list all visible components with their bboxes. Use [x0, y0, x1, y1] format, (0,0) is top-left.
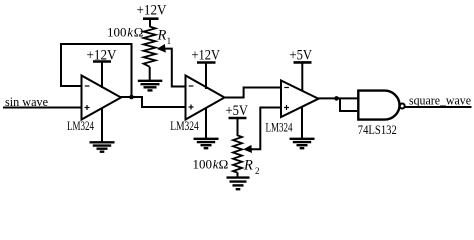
pin + of U1	[85, 105, 90, 110]
node junction dot U1 output	[129, 95, 134, 100]
wire U1 ground lead	[101, 108, 103, 142]
op-amp U1 (LM324 stage 1)	[82, 76, 122, 120]
svg-text:100: 100	[193, 157, 213, 172]
wiper arrow of R2	[243, 145, 252, 153]
resistor R1 potentiometer 100k	[144, 27, 156, 67]
power +12V rail for R1	[143, 19, 159, 27]
svg-text:R: R	[243, 158, 253, 174]
wire U2 output to U3 inverting input	[224, 88, 282, 98]
svg-text:Ω: Ω	[219, 157, 229, 172]
svg-text:74LS132: 74LS132	[358, 123, 397, 137]
pin - of U2	[189, 85, 194, 87]
power +5V rail for R2	[229, 118, 247, 136]
ground (R2)	[227, 178, 250, 190]
pin + of U2	[189, 105, 194, 110]
op-amp U2 (LM324 stage 2)	[186, 76, 225, 120]
ground (R1)	[138, 81, 163, 91]
power +12V rail for U2	[197, 63, 216, 90]
pin - of U3	[284, 87, 289, 89]
wire R2 wiper to U3 non-inverting input	[246, 108, 281, 150]
svg-text:+5V: +5V	[226, 103, 249, 119]
power +12V rail for U1	[93, 62, 111, 89]
pin - of U1	[85, 85, 90, 87]
resistor R2 potentiometer 100k	[233, 135, 242, 172]
wire junction to NAND lower input	[340, 98, 359, 111]
wire feedback loop U1 output to U1 inverting input	[61, 44, 132, 97]
svg-text:+12V: +12V	[87, 48, 117, 64]
power +5V rail for U3	[294, 62, 312, 91]
wire U3 ground lead	[301, 107, 303, 138]
wire sin wave input to op-amp U1 +	[3, 107, 82, 109]
svg-text:Ω: Ω	[134, 25, 144, 40]
pin + of U3	[284, 105, 289, 110]
wiper arrow of R1	[157, 44, 166, 53]
svg-text:square_wave: square_wave	[409, 94, 471, 108]
node junction dot U3 output	[334, 96, 339, 101]
wire R1 wiper to U2 inverting input	[161, 49, 186, 87]
svg-text:+12V: +12V	[137, 3, 167, 19]
ground (U1)	[90, 142, 115, 151]
svg-text:2: 2	[255, 166, 260, 176]
wire U2 ground lead	[205, 108, 207, 138]
wire U3 output to NAND gate inputs	[319, 97, 359, 99]
svg-text:R: R	[157, 28, 167, 44]
wire NAND output square wave	[405, 106, 472, 108]
NAND gate U4 (74LS132)	[358, 91, 399, 120]
wire R2 ground lead	[237, 173, 239, 177]
output bubble of U4	[400, 104, 405, 109]
ground (U2)	[194, 139, 219, 148]
ground (U3)	[290, 139, 315, 148]
svg-text:+5V: +5V	[290, 48, 313, 64]
svg-text:1: 1	[167, 36, 172, 46]
svg-text:LM324: LM324	[170, 119, 199, 133]
wire junction to U2 non-inverting input	[132, 97, 186, 107]
op-amp U3 (LM324 stage 3)	[281, 81, 319, 118]
svg-text:LM324: LM324	[67, 119, 95, 133]
svg-text:LM324: LM324	[266, 121, 294, 135]
wire R1 ground lead	[149, 67, 151, 80]
svg-text:+12V: +12V	[192, 48, 221, 64]
wire U1 output to junction	[120, 96, 132, 98]
svg-text:100: 100	[107, 25, 127, 40]
svg-text:k: k	[127, 25, 133, 40]
